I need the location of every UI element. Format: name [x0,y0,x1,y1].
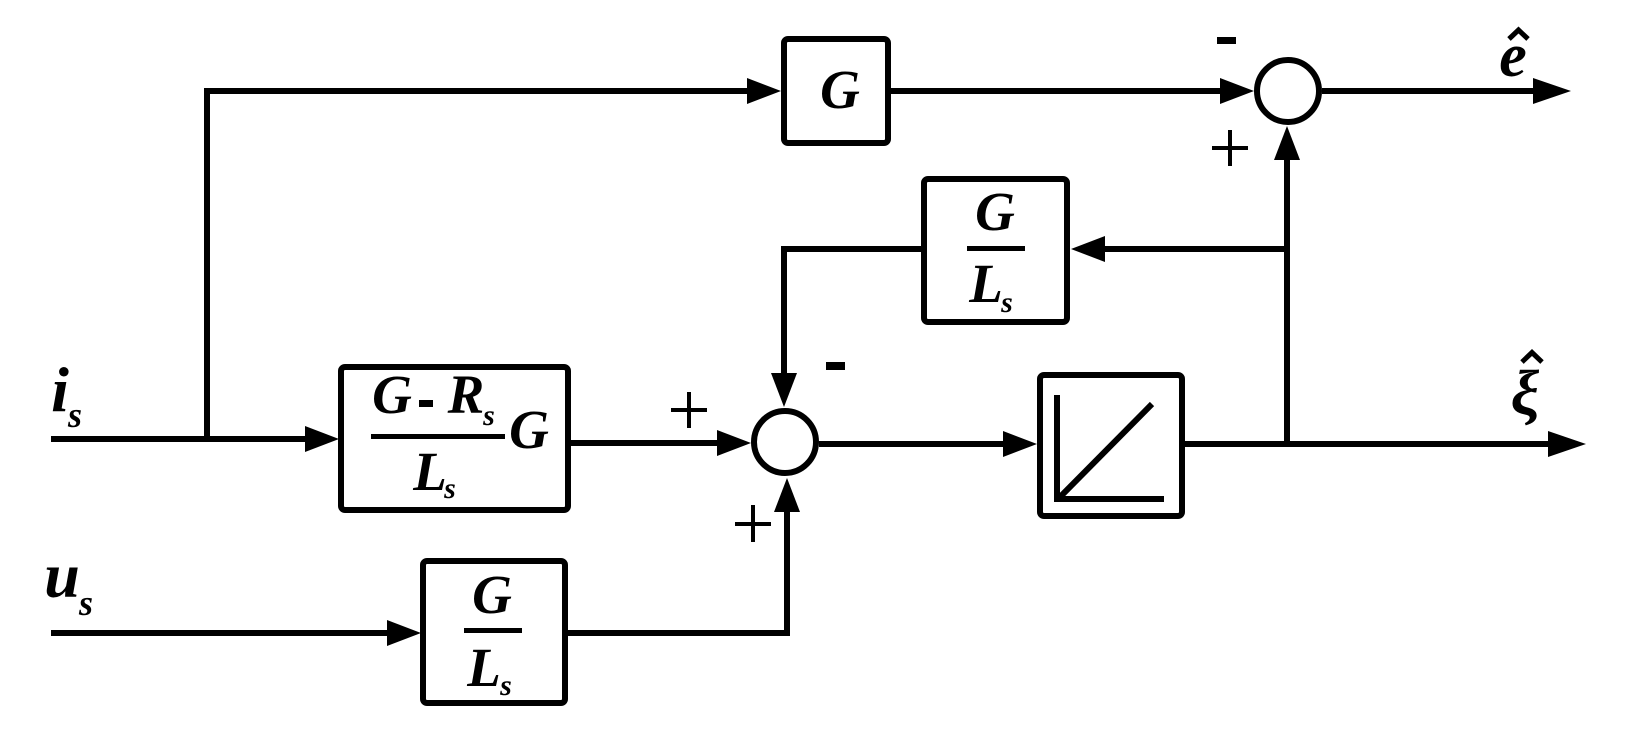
svg-text:s: s [67,395,82,435]
svg-text:s: s [78,583,93,623]
svg-text:ξ: ξ [1511,357,1540,428]
svg-text:s: s [1000,286,1013,319]
svg-text:i: i [51,354,69,425]
svg-text:u: u [44,540,80,611]
svg-text:G: G [509,399,549,460]
svg-text:R: R [447,364,485,425]
svg-text:L: L [412,441,447,502]
svg-text:G: G [372,364,412,425]
svg-text:L: L [968,253,1003,314]
svg-text:e: e [1499,22,1527,90]
svg-text:s: s [499,669,512,702]
svg-text:s: s [443,472,456,505]
svg-text:G: G [975,181,1015,242]
svg-text:G: G [472,564,512,625]
svg-text:L: L [466,637,501,698]
svg-text:G: G [820,59,860,120]
svg-text:s: s [482,399,495,432]
